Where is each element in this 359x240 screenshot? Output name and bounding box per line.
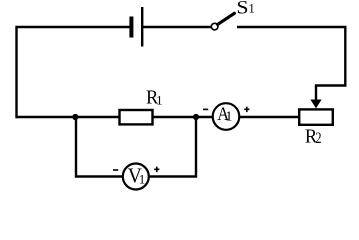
voltmeter plus sign xyxy=(154,167,159,173)
svg-text:1: 1 xyxy=(225,110,232,125)
svg-text:2: 2 xyxy=(316,130,322,147)
svg-text:1: 1 xyxy=(156,93,162,107)
switch S1 blade xyxy=(218,13,235,24)
svg-text:S: S xyxy=(236,0,248,19)
wire middle-left: rail to resistor xyxy=(17,116,121,118)
battery B positive plate (long thin) xyxy=(141,7,143,47)
switch S1 pivot xyxy=(211,23,218,30)
node junction right xyxy=(193,114,199,120)
voltmeter V1 label xyxy=(128,164,145,188)
svg-text:1: 1 xyxy=(139,171,146,186)
wire middle: resistor to ammeter xyxy=(152,116,213,118)
ammeter A1 label xyxy=(217,104,232,125)
wire down from left junction xyxy=(76,117,123,177)
ammeter minus sign xyxy=(203,109,208,111)
resistor R1 xyxy=(120,110,153,124)
rheostat R2 body xyxy=(299,109,333,124)
wire left rail and top-left segment xyxy=(17,27,130,118)
wire switch to top-right corner and right rail xyxy=(237,27,345,101)
voltmeter V1 xyxy=(123,164,149,190)
label R1 xyxy=(146,87,163,109)
wire voltmeter to right branch xyxy=(149,117,196,177)
svg-text:1: 1 xyxy=(249,2,255,16)
ammeter A1 xyxy=(213,103,240,130)
ammeter plus sign xyxy=(244,107,249,113)
battery B negative plate (short thick) xyxy=(129,17,133,38)
label S1 xyxy=(236,0,254,19)
rheostat R2 slider arrowhead xyxy=(310,100,321,109)
node junction left xyxy=(72,114,78,120)
wire ammeter to rheostat xyxy=(239,116,299,118)
voltmeter minus sign xyxy=(113,169,118,171)
label R2 xyxy=(305,126,322,148)
wire battery to switch xyxy=(143,26,211,28)
